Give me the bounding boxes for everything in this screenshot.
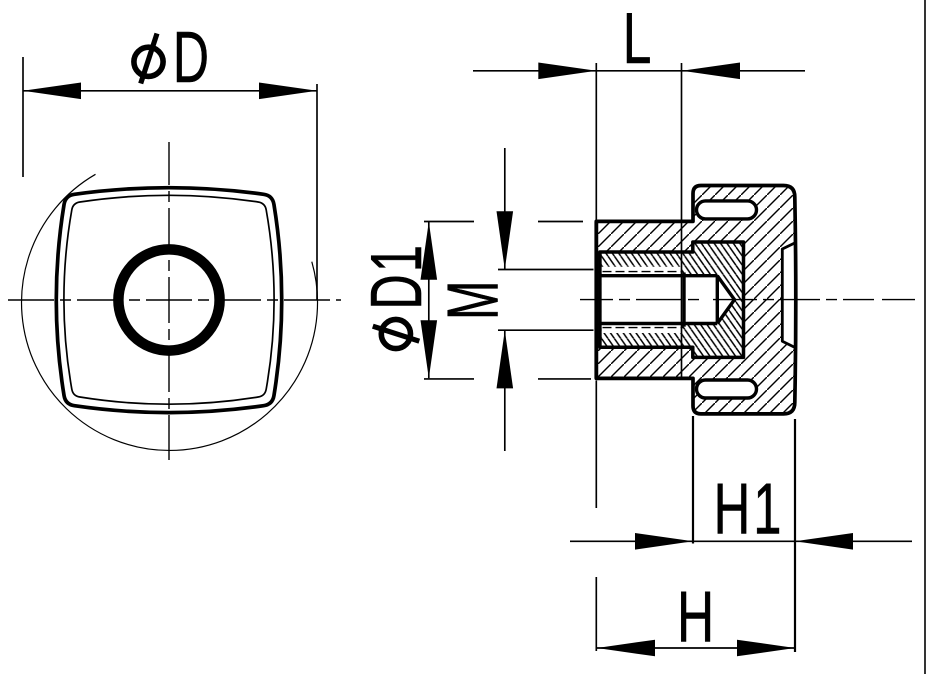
svg-text:D: D (173, 18, 209, 98)
svg-text:H: H (677, 577, 714, 658)
svg-text:H1: H1 (714, 469, 785, 550)
svg-text:D: D (356, 274, 437, 309)
svg-text:1: 1 (356, 245, 437, 272)
svg-text:M: M (432, 281, 513, 320)
svg-text:L: L (623, 0, 652, 79)
